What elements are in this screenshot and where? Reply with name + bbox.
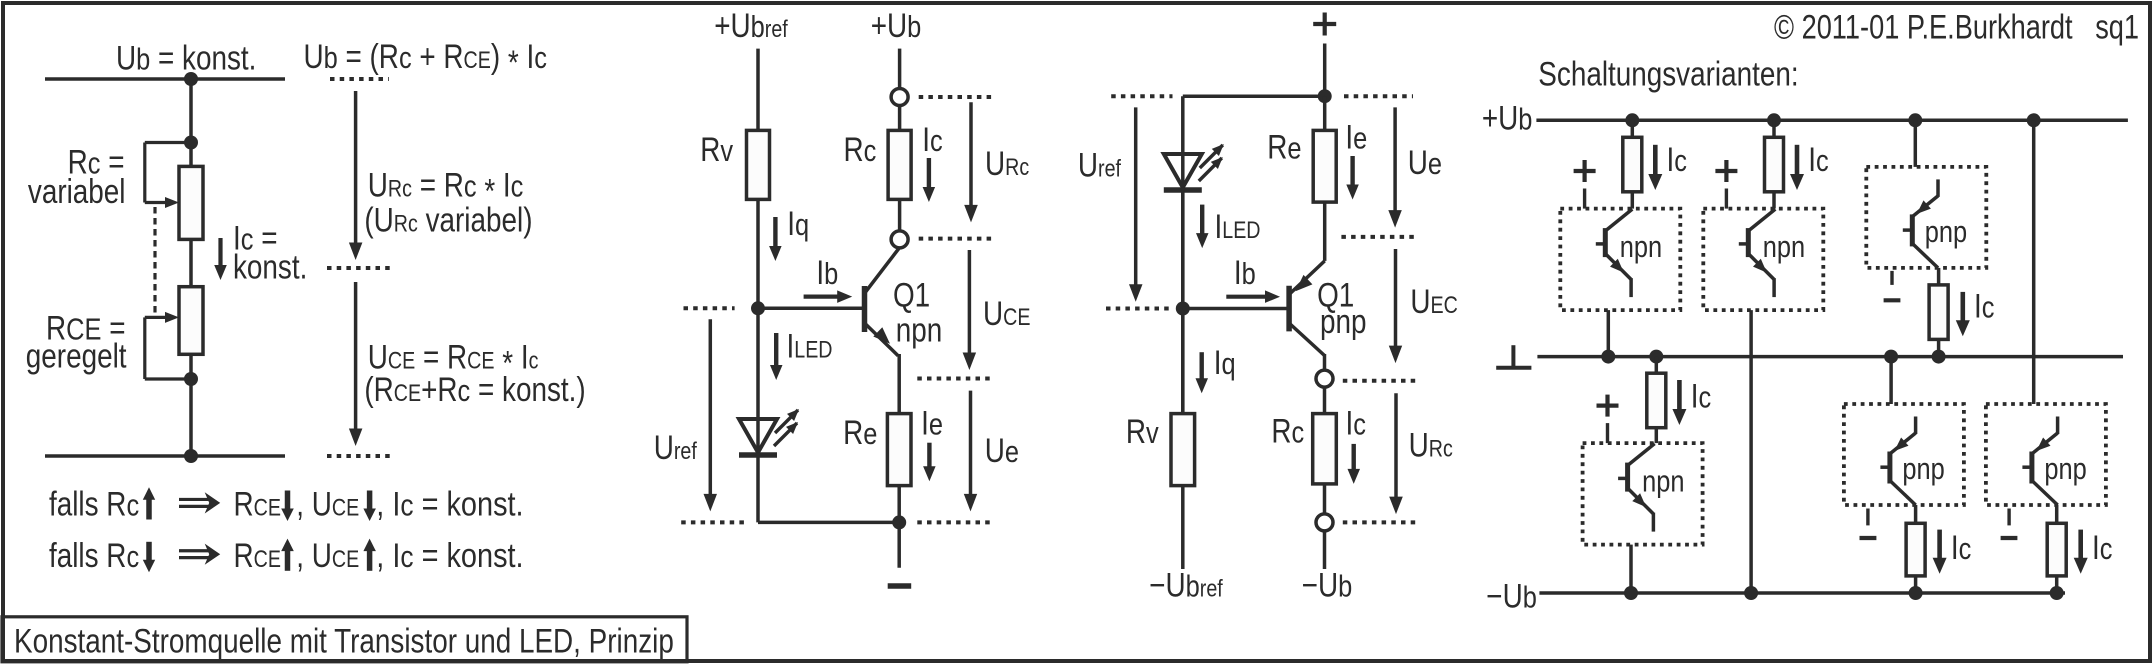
svg-text:Iq: Iq xyxy=(787,204,809,242)
svg-text:Ic: Ic xyxy=(1808,140,1828,178)
svg-text:npn: npn xyxy=(1642,464,1684,499)
svg-text:falls Rc: falls Rc xyxy=(49,485,139,523)
svg-text:, Ic = konst.: , Ic = konst. xyxy=(376,484,523,523)
svg-text:Rc: Rc xyxy=(1271,412,1304,450)
svg-text:Re: Re xyxy=(843,413,877,451)
svg-text:, Ic = konst.: , Ic = konst. xyxy=(376,536,523,575)
svg-text:Ic: Ic xyxy=(1346,404,1366,442)
svg-text:npn: npn xyxy=(896,311,943,349)
svg-text:Konstant-Stromquelle mit Trans: Konstant-Stromquelle mit Transistor und … xyxy=(14,622,674,660)
svg-text:Ue: Ue xyxy=(985,431,1019,469)
svg-text:Q1: Q1 xyxy=(893,276,930,314)
svg-text:Ie: Ie xyxy=(1345,118,1367,156)
svg-text:variabel: variabel xyxy=(28,173,126,211)
svg-text:Ic: Ic xyxy=(922,120,942,158)
svg-text:Rv: Rv xyxy=(700,130,734,168)
svg-text:npn: npn xyxy=(1620,230,1662,265)
svg-text:© 2011-01 P.E.Burkhardt sq1: © 2011-01 P.E.Burkhardt sq1 xyxy=(1774,7,2139,46)
svg-text:pnp: pnp xyxy=(1925,215,1967,250)
svg-text:−Ub: −Ub xyxy=(1486,577,1537,615)
svg-text:Ub = konst.: Ub = konst. xyxy=(116,39,256,77)
svg-text:Ic: Ic xyxy=(1691,377,1711,415)
svg-text:Rv: Rv xyxy=(1126,412,1160,450)
svg-text:Ub = (Rc + RCE) * Ic: Ub = (Rc + RCE) * Ic xyxy=(304,37,547,81)
svg-text:Rc: Rc xyxy=(844,130,877,168)
svg-text:geregelt: geregelt xyxy=(26,337,127,375)
svg-text:npn: npn xyxy=(1763,230,1805,265)
svg-text:+Ub: +Ub xyxy=(1482,99,1533,137)
svg-text:pnp: pnp xyxy=(2044,452,2086,487)
svg-text:Ue: Ue xyxy=(1408,143,1442,181)
svg-text:konst.: konst. xyxy=(233,248,307,286)
svg-text:falls Rc: falls Rc xyxy=(49,536,139,574)
svg-text:Ic: Ic xyxy=(1974,287,1994,325)
svg-text:Ib: Ib xyxy=(1234,253,1256,291)
svg-text:Ic: Ic xyxy=(2092,528,2112,566)
svg-text:pnp: pnp xyxy=(1320,302,1367,340)
svg-text:−Ub: −Ub xyxy=(1302,566,1353,604)
svg-text:Ie: Ie xyxy=(921,404,943,442)
svg-text:Ic: Ic xyxy=(1667,140,1687,178)
svg-text:Ib: Ib xyxy=(816,253,838,291)
svg-text:+Ub: +Ub xyxy=(871,6,922,44)
svg-text:Re: Re xyxy=(1267,128,1301,166)
svg-text:(URc variabel): (URc variabel) xyxy=(364,201,532,239)
svg-text:Iq: Iq xyxy=(1214,343,1236,381)
svg-text:Schaltungsvarianten:: Schaltungsvarianten: xyxy=(1538,55,1798,93)
svg-text:pnp: pnp xyxy=(1902,452,1944,487)
svg-text:Ic: Ic xyxy=(1951,528,1971,566)
